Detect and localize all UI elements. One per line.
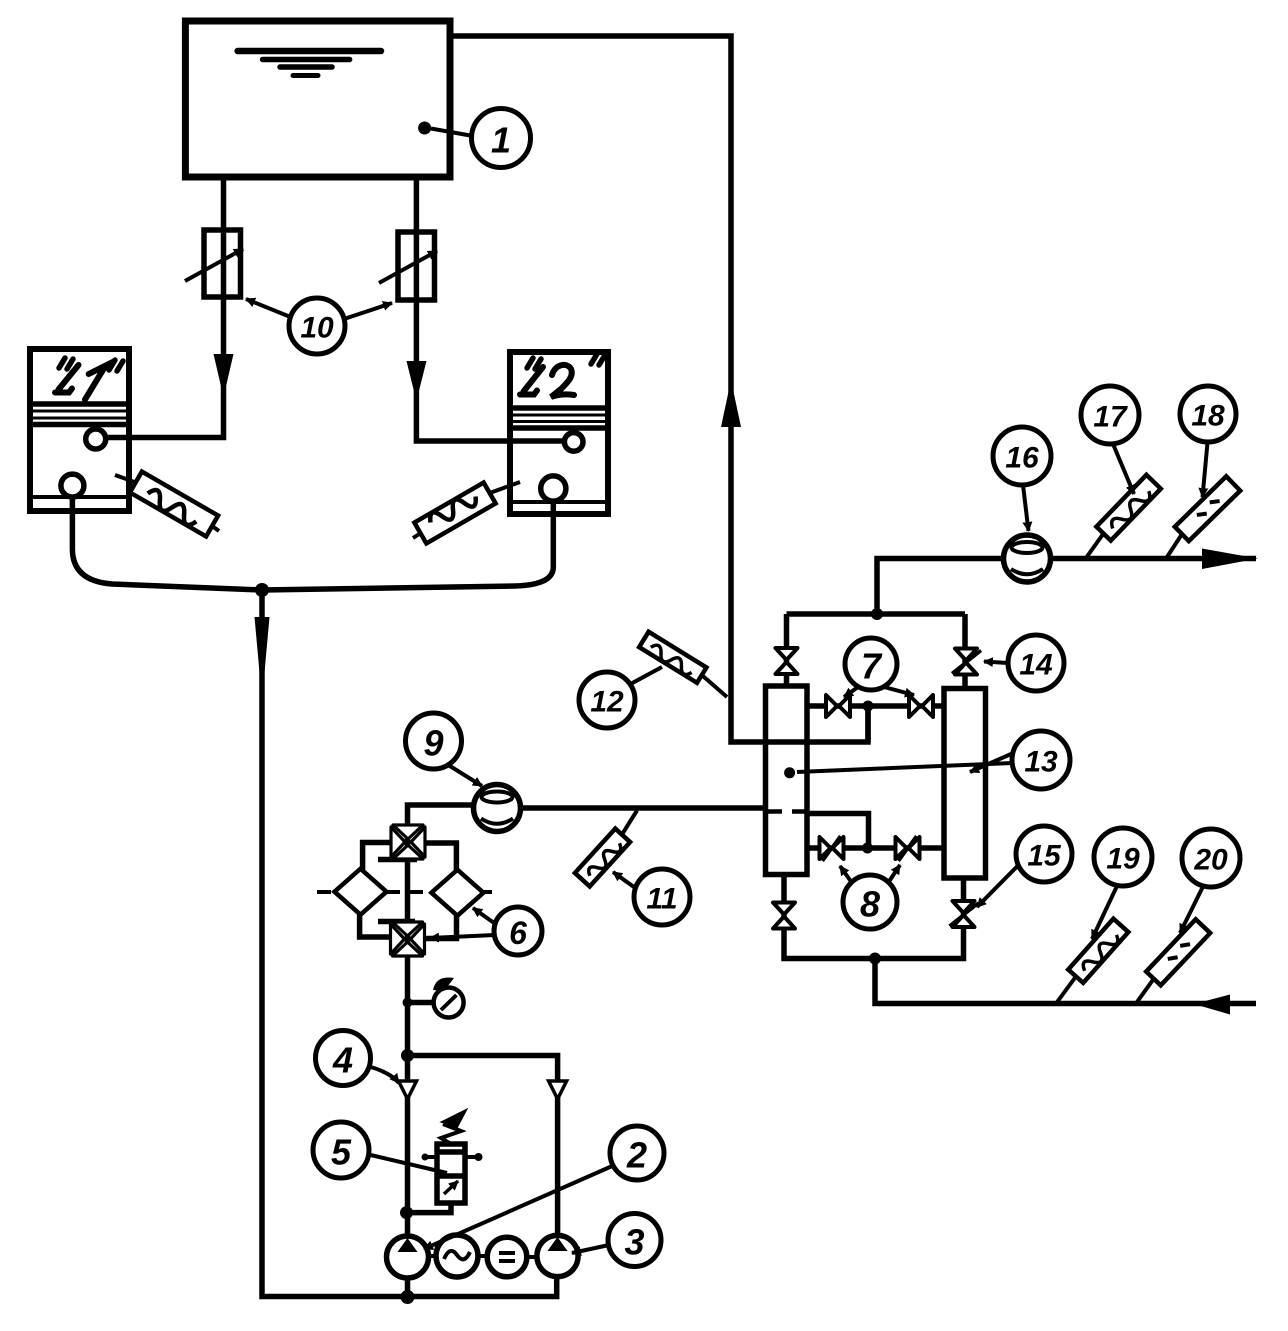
label circle 17 [1081, 386, 1139, 444]
pipe: tank to riser and feed to valve block [449, 36, 868, 742]
pipe: D2 drain [262, 501, 553, 590]
leader to 2 [424, 1165, 615, 1249]
pipe: main pressure line (pump to filter corner) [408, 805, 474, 1236]
svg-text:1: 1 [491, 120, 511, 161]
pipe: lower valve row 8 [807, 845, 944, 851]
sensor on D1 [115, 472, 219, 537]
label circle 16 [993, 427, 1051, 485]
svg-text:6: 6 [509, 915, 527, 951]
svg-text:9: 9 [423, 723, 443, 764]
accumulator column 13a (left) [766, 686, 808, 875]
pipe: D1 drain [72, 497, 262, 590]
label circle 2 [610, 1126, 664, 1180]
leader to 20 [1180, 887, 1203, 934]
relief valve 5 [422, 1110, 483, 1203]
pipe: feed drop between valves 7 [865, 706, 871, 742]
changeover X-valve bottom (filter) [391, 922, 425, 956]
sensor 12 [639, 632, 727, 697]
svg-text:8: 8 [860, 884, 880, 925]
svg-text:19: 19 [1106, 843, 1140, 876]
shutoff valve (left column top) [776, 648, 798, 674]
label circle 18 [1180, 386, 1236, 442]
pipe: main drop and suction bottom line [262, 588, 557, 1297]
sensor on D2 [413, 482, 520, 543]
leader to 9 [448, 765, 483, 787]
label circle 15 [1016, 826, 1072, 882]
leaders to 7 [844, 687, 858, 697]
valve 8a [820, 836, 844, 861]
valve 15 (right column bottom) [950, 901, 979, 927]
valve 7a [826, 695, 850, 717]
sensor 19 [1056, 919, 1128, 1003]
label circle 3 [608, 1214, 661, 1267]
pipe: gauge stub [408, 1000, 435, 1006]
flow arrow down left pipe [214, 354, 234, 397]
shutoff valve (left column bottom) [773, 903, 795, 929]
pipe: pump 2 suction stub [405, 1278, 411, 1297]
leaders to 6 [473, 908, 496, 924]
check valve 4a [399, 1081, 417, 1099]
tank 1 [185, 21, 450, 177]
flow arrow down drain [255, 617, 270, 700]
sensor 11 [575, 811, 637, 887]
leader to 11 [613, 872, 636, 889]
label circle 1 [472, 109, 531, 168]
junction bottom manifold node [869, 953, 881, 965]
pipe: relief valve return link [407, 1203, 452, 1213]
label circle 4 [316, 1031, 371, 1086]
leader to 15 [977, 866, 1018, 907]
label circle 19 [1094, 828, 1152, 886]
changeover X-valve top (filter) [391, 825, 425, 859]
valve 7b [909, 695, 933, 717]
pump 2 [387, 1236, 429, 1278]
flow arrow left return [1194, 995, 1230, 1015]
leaders to 13 [797, 763, 1013, 772]
svg-text:2: 2 [626, 1135, 647, 1176]
junction top manifold node [871, 608, 883, 620]
pipe: left tank outlet down to D1 [106, 177, 224, 438]
valve 14 (right column top) [952, 649, 981, 675]
label circle 12 [579, 672, 635, 728]
pressure gauge [433, 978, 464, 1018]
flow arrow down right pipe [407, 361, 427, 401]
label circle 20 [1182, 829, 1240, 887]
leader to 3 [572, 1245, 609, 1253]
dashed pipe inside column [767, 809, 806, 814]
leader to 18 [1203, 443, 1208, 498]
check valve 4b [549, 1081, 567, 1099]
leader to 14 [984, 662, 1008, 664]
accumulator column 13b (right) [944, 689, 986, 879]
pipe: top manifold [787, 611, 966, 617]
pipe: filter right loop [421, 843, 457, 939]
svg-text:15: 15 [1027, 840, 1062, 873]
pipe: right tank outlet down to D2 [416, 177, 564, 441]
label circle 8 [843, 875, 897, 929]
svg-text:14: 14 [1019, 649, 1053, 682]
pipe: left column bottom [784, 875, 964, 959]
label circle 5 [313, 1122, 369, 1178]
svg-text:13: 13 [1024, 746, 1058, 779]
label circle 7 [845, 638, 897, 690]
sensor 18 [1166, 476, 1240, 558]
leaders to 10 [246, 299, 291, 317]
water level lines [238, 51, 381, 76]
valve 8b [896, 836, 920, 861]
label circle 9 [406, 713, 462, 769]
leader to 4 [367, 1066, 399, 1083]
pipe: column to lower valve row [807, 814, 869, 849]
leader to 12 [631, 667, 663, 684]
shaft links [429, 1256, 537, 1257]
filter element 6b (right diamond) [431, 870, 483, 916]
pipe: filter left loop [360, 843, 395, 938]
svg-text:17: 17 [1093, 401, 1128, 434]
junction relief node [400, 1206, 413, 1219]
sensor 20 [1136, 919, 1210, 1003]
svg-text:5: 5 [331, 1132, 352, 1173]
label circle 13 [1012, 731, 1070, 789]
junction branch node [401, 1049, 414, 1062]
leader to 5 [369, 1155, 448, 1174]
filter element 6a (left diamond) [335, 869, 387, 915]
label "D1" [55, 358, 123, 400]
label circle 11 [634, 869, 690, 925]
flow arrow up on riser [721, 380, 741, 427]
svg-text:16: 16 [1005, 442, 1039, 475]
tap point dot in tank [418, 122, 431, 135]
pipe: line from filter to columns [521, 805, 766, 811]
filter dashed axis [317, 890, 497, 894]
pipe: return line [875, 959, 1256, 1004]
leader to 17 [1113, 444, 1134, 494]
label circle 14 [1008, 635, 1064, 691]
sensor 17 [1086, 475, 1161, 558]
pipe: right column top [962, 614, 968, 689]
leaders to 8 [840, 866, 851, 882]
junction bottom node [401, 1290, 415, 1304]
flow arrow right delivery [1202, 549, 1258, 570]
svg-text:10: 10 [300, 312, 334, 345]
flow device 9 (sight glass) [474, 785, 521, 832]
svg-text:18: 18 [1191, 400, 1225, 433]
label "D2" [520, 354, 605, 397]
unit D2 (right dryer box) [510, 352, 608, 514]
svg-text:3: 3 [624, 1222, 644, 1263]
filter port ticks [378, 860, 417, 922]
svg-text:7: 7 [861, 646, 883, 687]
pipe: parallel branch to pump 3 [408, 1056, 558, 1237]
pump 3 [537, 1235, 578, 1276]
motor (AC) [436, 1235, 478, 1277]
throttle valve 10a [185, 230, 243, 297]
unit D1 (left dryer box) [30, 349, 129, 511]
pipe: left column top [784, 614, 790, 686]
svg-text:12: 12 [590, 686, 624, 719]
coupling (=) [487, 1237, 527, 1277]
label circle 6 [494, 907, 542, 955]
svg-text:11: 11 [646, 883, 677, 916]
junction drain node [255, 583, 269, 597]
flow device 16 (sight glass) [1004, 535, 1051, 582]
pipe: upper valve row 7 [807, 703, 944, 709]
throttle valve 10b [379, 232, 437, 300]
leader to 16 [1023, 485, 1029, 531]
leader to 19 [1092, 886, 1117, 939]
label circle 10 [289, 298, 345, 354]
svg-text:4: 4 [332, 1040, 353, 1081]
pipe: outlet riser and delivery line [877, 559, 1256, 615]
svg-text:20: 20 [1193, 844, 1228, 877]
leader to 1 [431, 129, 473, 137]
